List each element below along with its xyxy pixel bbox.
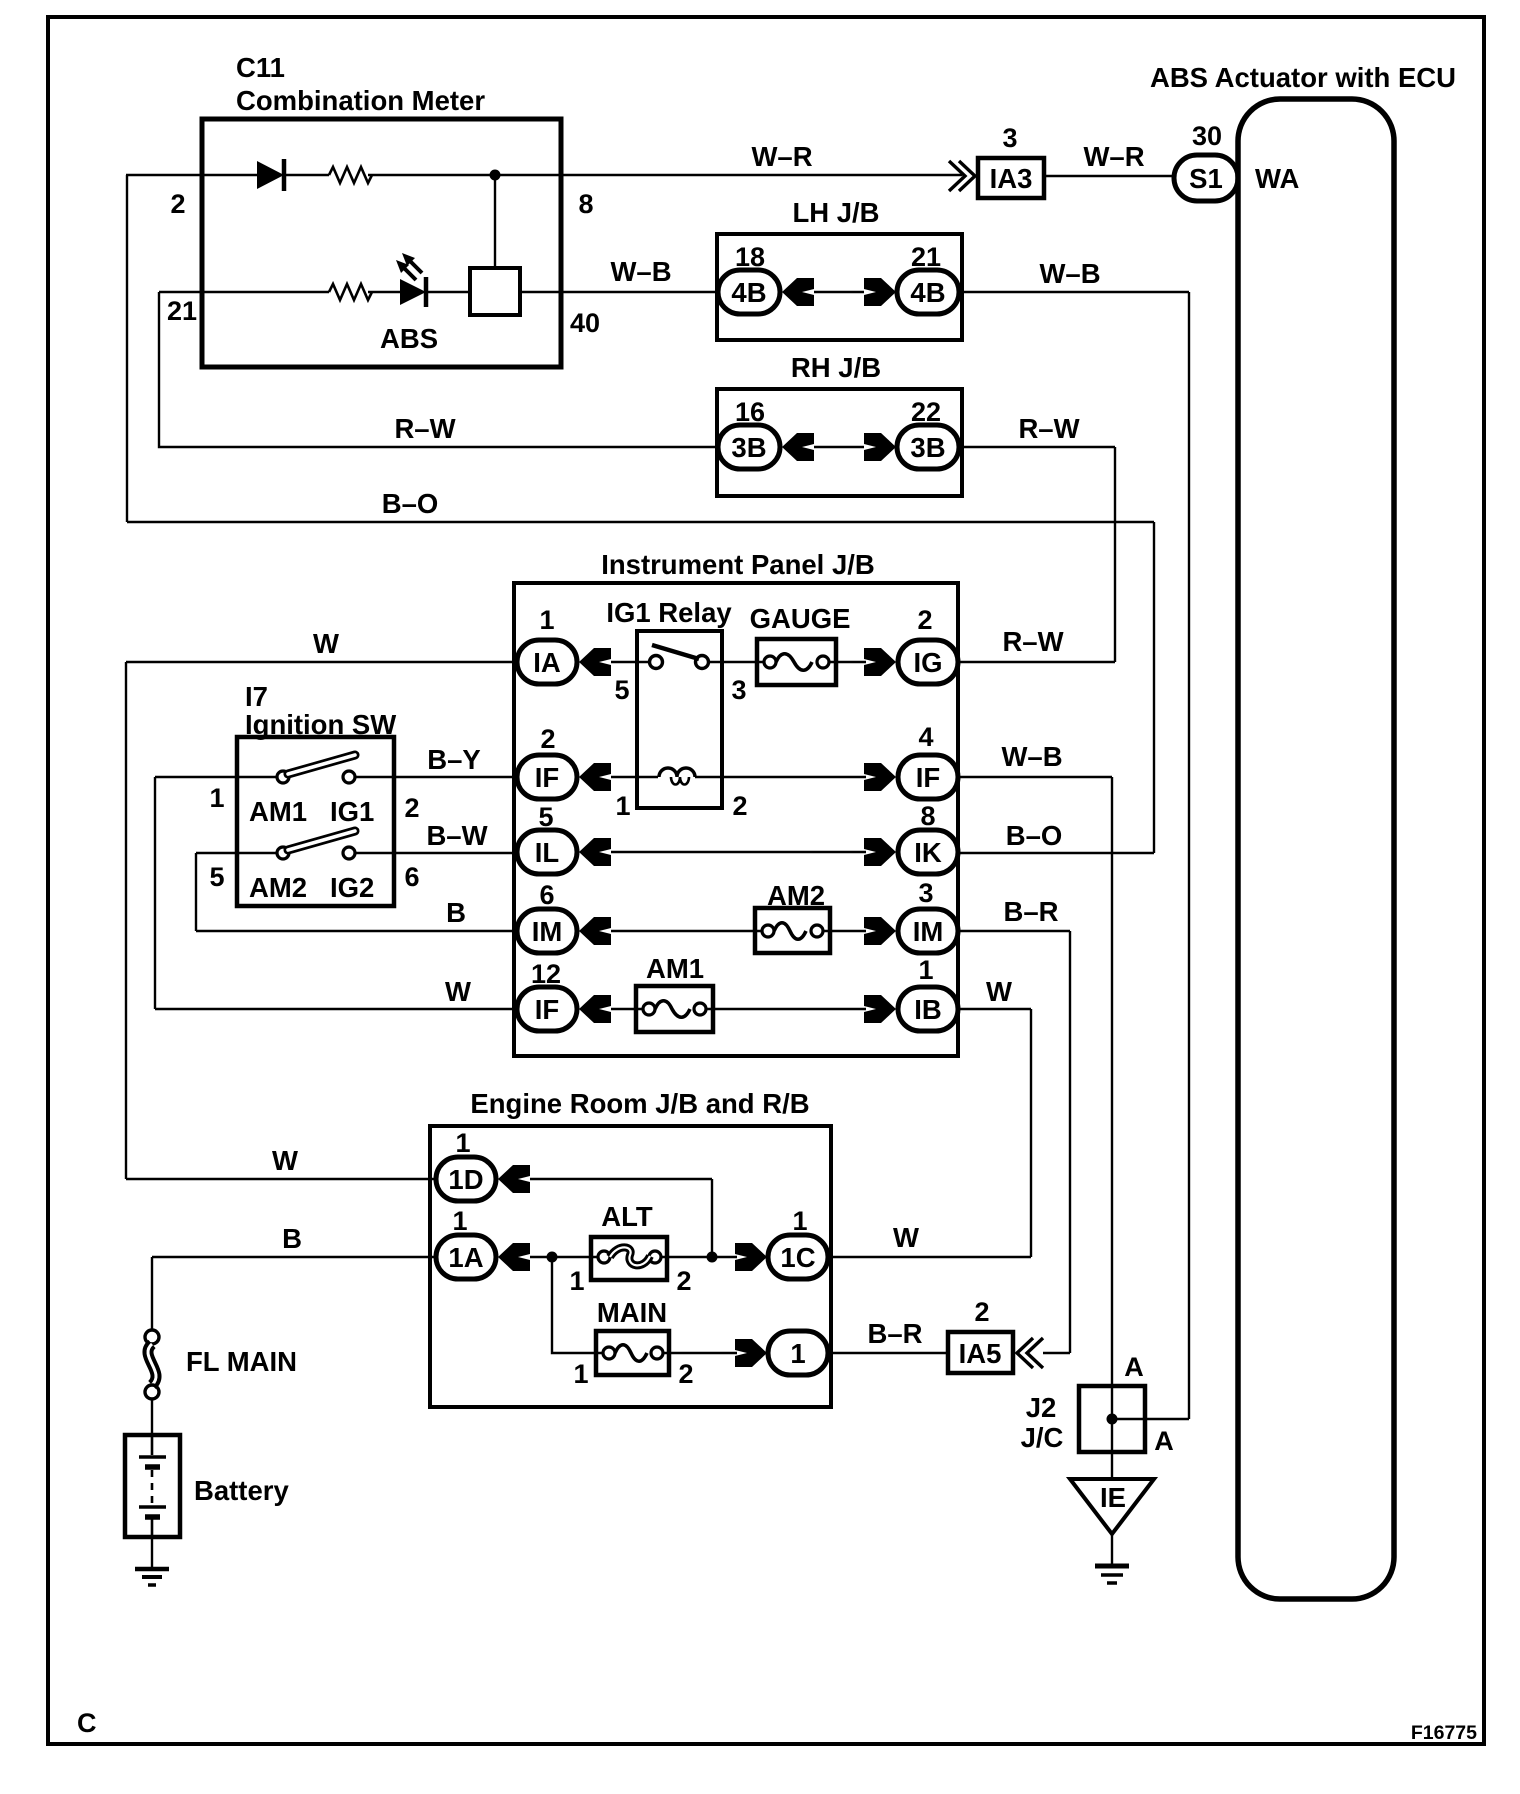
svg-text:W–B: W–B bbox=[1001, 741, 1062, 772]
chevron into IA3 bbox=[949, 161, 975, 191]
connector 1C oval bbox=[768, 1235, 828, 1279]
fuse GAUGE symbol bbox=[764, 656, 776, 668]
arrow left (RH J/B) bbox=[782, 433, 814, 461]
arrow left (IF12) bbox=[579, 995, 611, 1023]
fuse MAIN symbol bbox=[603, 1347, 615, 1359]
wire between arrows bbox=[814, 446, 864, 448]
wire W from 1C bbox=[828, 1256, 1031, 1258]
wire 3B right to vertical bbox=[959, 446, 1115, 448]
svg-text:Combination Meter: Combination Meter bbox=[236, 85, 485, 116]
switch AM1-IG1 lever bbox=[288, 755, 355, 774]
resistor R1 (meter top row) bbox=[329, 167, 372, 183]
wire pin2 to diode bbox=[126, 174, 257, 176]
arrow right (LH J/B) bbox=[864, 278, 896, 306]
wire 1D arrow to vertical bbox=[530, 1178, 712, 1180]
arrow left (IM) bbox=[579, 917, 611, 945]
svg-text:3B: 3B bbox=[910, 432, 945, 463]
svg-text:W: W bbox=[445, 976, 471, 1007]
svg-text:LH J/B: LH J/B bbox=[792, 197, 879, 228]
svg-text:1: 1 bbox=[455, 1128, 470, 1158]
svg-text:16: 16 bbox=[735, 397, 765, 427]
svg-text:30: 30 bbox=[1192, 121, 1222, 151]
svg-text:MAIN: MAIN bbox=[597, 1297, 667, 1328]
svg-text:3: 3 bbox=[731, 675, 746, 705]
wire IF4 to vertical bbox=[958, 776, 1112, 778]
battery internal plates bbox=[151, 1435, 154, 1455]
wire IB to vertical bbox=[958, 1008, 1031, 1010]
svg-text:FL MAIN: FL MAIN bbox=[186, 1346, 297, 1377]
relay switch lever bbox=[652, 645, 699, 659]
wire resistor to LED bbox=[368, 291, 400, 293]
wire B-O into IK bbox=[958, 852, 1154, 854]
connector IM right oval (pin3) bbox=[898, 909, 958, 953]
svg-text:B–O: B–O bbox=[382, 488, 439, 519]
wire W into IF12 bbox=[155, 1008, 517, 1010]
svg-text:4: 4 bbox=[918, 722, 933, 752]
svg-text:C: C bbox=[77, 1708, 97, 1738]
svg-text:IK: IK bbox=[914, 837, 942, 868]
LED ABS warning lamp bbox=[400, 279, 426, 305]
svg-text:1: 1 bbox=[452, 1206, 467, 1236]
wire IA3 to S1 bbox=[1044, 175, 1174, 177]
ground symbol (battery) bbox=[135, 1567, 169, 1572]
svg-text:2: 2 bbox=[917, 605, 932, 635]
svg-text:B–Y: B–Y bbox=[427, 744, 481, 775]
svg-text:IE: IE bbox=[1100, 1482, 1126, 1513]
svg-text:B–O: B–O bbox=[1006, 820, 1063, 851]
wire ALT to 1C arrow bbox=[661, 1256, 737, 1258]
wire 1A arrow to ALT bbox=[530, 1256, 598, 1258]
svg-text:1: 1 bbox=[573, 1359, 588, 1389]
relay IG1 box bbox=[637, 631, 722, 808]
wire GAUGE to IG arrow bbox=[829, 661, 866, 663]
svg-text:Battery: Battery bbox=[194, 1475, 289, 1506]
svg-text:1C: 1C bbox=[780, 1242, 815, 1273]
svg-text:18: 18 bbox=[735, 242, 765, 272]
svg-text:RH J/B: RH J/B bbox=[791, 352, 881, 383]
wire B-O vertical from pin2 wire bbox=[126, 175, 128, 522]
chevron out of IA5 bbox=[1017, 1338, 1043, 1368]
junction node (ALT out) bbox=[707, 1252, 718, 1263]
svg-text:A: A bbox=[1154, 1426, 1174, 1456]
wire W-B vertical down to J/C bbox=[1188, 292, 1190, 1419]
svg-text:I7: I7 bbox=[245, 681, 268, 712]
connector IK oval bbox=[898, 830, 958, 874]
connector IA3 box bbox=[978, 158, 1044, 198]
svg-text:R–W: R–W bbox=[1018, 413, 1079, 444]
wire pin21 to resistor bbox=[159, 291, 329, 293]
svg-text:3: 3 bbox=[918, 878, 933, 908]
connector 3B left oval bbox=[718, 425, 780, 469]
svg-text:IA3: IA3 bbox=[990, 163, 1033, 194]
svg-text:1: 1 bbox=[918, 955, 933, 985]
arrow right (IB) bbox=[864, 995, 896, 1023]
connector IG oval bbox=[898, 640, 958, 684]
arrow right (1 oval) bbox=[735, 1339, 767, 1367]
svg-text:5: 5 bbox=[209, 862, 224, 892]
wire B down from 1A run bbox=[151, 1257, 153, 1330]
svg-text:AM2: AM2 bbox=[249, 872, 307, 903]
svg-text:W: W bbox=[893, 1222, 919, 1253]
svg-text:1: 1 bbox=[790, 1338, 805, 1369]
LED emission arrows bbox=[403, 260, 422, 280]
connector IL oval bbox=[517, 830, 577, 874]
svg-text:IG2: IG2 bbox=[330, 872, 374, 903]
svg-text:21: 21 bbox=[911, 242, 941, 272]
wire W vertical AM1 to IF12 bbox=[154, 777, 156, 1009]
connector 1A oval bbox=[436, 1235, 496, 1279]
connector IA oval bbox=[517, 640, 577, 684]
switch AM2-IG2 lever bbox=[288, 831, 355, 850]
svg-text:1D: 1D bbox=[448, 1164, 483, 1195]
LH J/B box bbox=[717, 234, 962, 340]
svg-text:IF: IF bbox=[535, 994, 559, 1025]
arrow left (1D) bbox=[498, 1165, 530, 1193]
svg-text:2: 2 bbox=[732, 791, 747, 821]
connector 4B left oval bbox=[718, 270, 780, 314]
svg-text:IB: IB bbox=[914, 994, 942, 1025]
arrow right (IK) bbox=[864, 838, 896, 866]
wire IG to R-W vertical bbox=[958, 661, 1115, 663]
connector IB oval bbox=[898, 987, 958, 1031]
svg-text:B: B bbox=[282, 1223, 302, 1254]
svg-text:2: 2 bbox=[678, 1359, 693, 1389]
connector 3B right oval bbox=[897, 425, 959, 469]
svg-text:IA: IA bbox=[533, 647, 561, 678]
svg-text:2: 2 bbox=[404, 793, 419, 823]
junction node (top row) bbox=[490, 170, 501, 181]
relay contact left bbox=[650, 656, 663, 669]
svg-text:W–B: W–B bbox=[1039, 258, 1100, 289]
switch AM1-IG1 contact left bbox=[277, 771, 289, 783]
wire W into 1D bbox=[126, 1178, 436, 1180]
svg-text:3: 3 bbox=[1002, 123, 1017, 153]
fuse AM1 symbol bbox=[643, 1003, 655, 1015]
svg-text:AM1: AM1 bbox=[249, 796, 307, 827]
wire battery to ground bbox=[151, 1537, 153, 1569]
battery box bbox=[125, 1435, 180, 1537]
resistor R2 (meter bottom row) bbox=[329, 284, 372, 300]
svg-text:1A: 1A bbox=[448, 1242, 483, 1273]
svg-text:12: 12 bbox=[531, 959, 561, 989]
arrow left (IF) bbox=[579, 763, 611, 791]
fuse AM1 box bbox=[636, 986, 713, 1032]
wire B into IM bbox=[196, 930, 517, 932]
svg-text:WA: WA bbox=[1255, 163, 1299, 194]
wire B-R from 1 oval bbox=[828, 1352, 948, 1354]
arrow right (IG) bbox=[864, 648, 896, 676]
wire IL to IK bbox=[611, 851, 866, 853]
svg-text:B: B bbox=[446, 897, 466, 928]
ground symbol (IE) bbox=[1095, 1564, 1129, 1569]
svg-text:J2: J2 bbox=[1026, 1392, 1057, 1423]
svg-text:1: 1 bbox=[792, 1206, 807, 1236]
switch AM1-IG1 contact right bbox=[343, 771, 355, 783]
switch AM2-IG2 contact left bbox=[277, 847, 289, 859]
svg-text:3B: 3B bbox=[731, 432, 766, 463]
wire J/C down to IE bbox=[1111, 1419, 1113, 1479]
svg-text:1: 1 bbox=[539, 605, 554, 635]
fusible link FL MAIN bbox=[145, 1330, 159, 1344]
wire relay contact to GAUGE bbox=[709, 661, 765, 663]
svg-text:F16775: F16775 bbox=[1411, 1722, 1477, 1744]
svg-text:5: 5 bbox=[614, 675, 629, 705]
ground connector IE triangle bbox=[1070, 1479, 1154, 1534]
svg-text:GAUGE: GAUGE bbox=[750, 603, 851, 634]
connector IF right oval (pin4) bbox=[898, 755, 958, 799]
wire FL MAIN to battery bbox=[151, 1399, 153, 1435]
svg-text:IF: IF bbox=[916, 762, 940, 793]
fuse ALT symbol bbox=[598, 1251, 610, 1263]
svg-text:2: 2 bbox=[170, 189, 185, 219]
wire IM3 to vertical bbox=[958, 930, 1070, 932]
svg-text:4B: 4B bbox=[731, 277, 766, 308]
connector 1D oval bbox=[436, 1157, 496, 1201]
wire W to IA bbox=[126, 661, 517, 663]
arrow right (RH J/B) bbox=[864, 433, 896, 461]
wire W vertical up to IB bbox=[1030, 1009, 1032, 1257]
wire B into 1A bbox=[152, 1256, 436, 1258]
fuse ALT box bbox=[591, 1237, 667, 1280]
svg-text:IG: IG bbox=[913, 647, 942, 678]
svg-text:B–W: B–W bbox=[426, 820, 487, 851]
svg-text:A: A bbox=[1124, 1352, 1144, 1382]
wire junction down to driver box bbox=[494, 175, 496, 268]
fuse MAIN box bbox=[596, 1331, 669, 1375]
wire vertical to ALT junction bbox=[711, 1179, 713, 1257]
wire IF to relay coil bbox=[611, 776, 658, 778]
RH J/B box bbox=[717, 389, 962, 496]
wire 4B right to vertical bbox=[959, 291, 1189, 293]
svg-text:C11: C11 bbox=[236, 52, 285, 83]
svg-text:W–B: W–B bbox=[610, 256, 671, 287]
svg-text:IM: IM bbox=[532, 916, 563, 947]
connector IF oval (pin2) bbox=[517, 755, 577, 799]
svg-text:IA5: IA5 bbox=[959, 1338, 1002, 1369]
arrow right (1C) bbox=[735, 1243, 767, 1271]
ignition switch box I7 bbox=[237, 737, 394, 906]
connector S1 oval bbox=[1174, 155, 1238, 201]
wire between arrows bbox=[814, 291, 864, 293]
relay contact right bbox=[696, 656, 709, 669]
wire B-W IG2 to IL bbox=[355, 852, 517, 854]
wire AM2 to IM3 arrow bbox=[823, 930, 866, 932]
switch AM2-IG2 contact right bbox=[343, 847, 355, 859]
wire B-O horizontal bbox=[127, 521, 1154, 523]
wire diode to resistor bbox=[284, 174, 329, 176]
wire IF12 to AM1 bbox=[611, 1008, 644, 1010]
svg-text:B–R: B–R bbox=[1003, 896, 1058, 927]
svg-text:IL: IL bbox=[535, 837, 559, 868]
arrow right (IF4) bbox=[864, 763, 896, 791]
svg-text:Engine Room J/B and R/B: Engine Room J/B and R/B bbox=[470, 1088, 809, 1119]
wire B vertical AM2 to IM bbox=[195, 853, 197, 931]
arrow left (LH J/B) bbox=[782, 278, 814, 306]
wire AM2 pin5 left bbox=[196, 852, 277, 854]
svg-text:1: 1 bbox=[615, 791, 630, 821]
svg-text:IF: IF bbox=[535, 762, 559, 793]
arrow right (IM3) bbox=[864, 917, 896, 945]
svg-text:ALT: ALT bbox=[601, 1201, 653, 1232]
wire driver box to pin 40 bbox=[520, 291, 718, 293]
relay coil bbox=[659, 768, 695, 777]
svg-text:IM: IM bbox=[913, 916, 944, 947]
wire R-W from meter vertical bbox=[159, 292, 718, 447]
svg-text:ABS: ABS bbox=[380, 323, 438, 354]
wire AM1 pin1 left bbox=[155, 776, 277, 778]
ABS actuator ECU rounded box WA bbox=[1238, 99, 1394, 1599]
connector IM oval bbox=[517, 909, 577, 953]
svg-text:Instrument Panel J/B: Instrument Panel J/B bbox=[601, 549, 875, 580]
svg-text:AM1: AM1 bbox=[646, 953, 704, 984]
svg-text:J/C: J/C bbox=[1021, 1422, 1064, 1453]
wire B-R vertical up to IM3 bbox=[1069, 931, 1071, 1353]
svg-text:R–W: R–W bbox=[394, 413, 455, 444]
svg-text:1: 1 bbox=[569, 1266, 584, 1296]
wire MAIN to 1 arrow bbox=[663, 1352, 737, 1354]
connector IF oval (pin12) bbox=[517, 987, 577, 1031]
svg-text:2: 2 bbox=[974, 1297, 989, 1327]
engine room J/B box bbox=[430, 1126, 831, 1407]
svg-text:IG1: IG1 bbox=[330, 796, 374, 827]
wire IE to ground bbox=[1111, 1534, 1113, 1566]
svg-text:22: 22 bbox=[911, 397, 941, 427]
fuse AM2 box bbox=[755, 908, 830, 953]
wire J/C to W-B vertical bbox=[1112, 1418, 1189, 1420]
fuse GAUGE box bbox=[757, 639, 836, 685]
svg-text:IG1 Relay: IG1 Relay bbox=[606, 597, 732, 628]
arrow left (1A) bbox=[498, 1243, 530, 1271]
arrow left (IL) bbox=[579, 838, 611, 866]
wire B-Y IG1 to IF bbox=[355, 776, 517, 778]
svg-text:W–R: W–R bbox=[751, 141, 812, 172]
wire relay coil to IF4 arrow bbox=[695, 776, 866, 778]
driver square box bbox=[470, 268, 520, 315]
svg-text:6: 6 bbox=[404, 862, 419, 892]
wire W-B vertical down to J/C bbox=[1111, 777, 1113, 1419]
svg-text:R–W: R–W bbox=[1002, 626, 1063, 657]
wire LED to driver box bbox=[426, 291, 470, 293]
svg-text:W: W bbox=[986, 976, 1012, 1007]
connector 4B right oval bbox=[897, 270, 959, 314]
svg-text:2: 2 bbox=[540, 724, 555, 754]
svg-text:4B: 4B bbox=[910, 277, 945, 308]
svg-text:ABS Actuator with ECU: ABS Actuator with ECU bbox=[1150, 62, 1456, 93]
wire resistor to pin 8 bbox=[368, 174, 962, 176]
svg-text:5: 5 bbox=[538, 802, 553, 832]
wire IM to AM2 bbox=[611, 930, 763, 932]
fuse AM2 symbol bbox=[762, 925, 774, 937]
wire IA5 to vertical bbox=[1043, 1352, 1070, 1354]
junction block J2 J/C box bbox=[1079, 1386, 1145, 1452]
instrument panel J/B box bbox=[514, 583, 958, 1056]
connector IA5 box bbox=[948, 1332, 1013, 1373]
connector 1 oval bbox=[768, 1331, 828, 1375]
junction node (J/C) bbox=[1107, 1414, 1118, 1425]
svg-text:B–R: B–R bbox=[867, 1318, 922, 1349]
wire B-O vertical right bbox=[1153, 522, 1155, 853]
svg-text:8: 8 bbox=[578, 189, 593, 219]
svg-text:2: 2 bbox=[676, 1266, 691, 1296]
wire AM1 to IB arrow bbox=[706, 1008, 866, 1010]
svg-text:6: 6 bbox=[539, 880, 554, 910]
svg-text:W: W bbox=[313, 628, 339, 659]
arrow left (IA) bbox=[579, 648, 611, 676]
svg-text:W: W bbox=[272, 1145, 298, 1176]
svg-text:21: 21 bbox=[167, 296, 197, 326]
svg-text:S1: S1 bbox=[1189, 163, 1223, 194]
diode D (combination meter) bbox=[257, 161, 284, 189]
wire W vertical down to 1D bbox=[125, 662, 127, 1179]
svg-text:1: 1 bbox=[209, 783, 224, 813]
wire junction down to MAIN bbox=[552, 1257, 603, 1353]
svg-text:W–R: W–R bbox=[1083, 141, 1144, 172]
svg-text:8: 8 bbox=[920, 801, 935, 831]
combination meter box C11 bbox=[202, 119, 561, 367]
wire R-W vertical down to IG bbox=[1114, 447, 1116, 662]
junction node (1A/ALT/MAIN) bbox=[547, 1252, 558, 1263]
wire IA to relay contact bbox=[611, 661, 650, 663]
svg-text:40: 40 bbox=[570, 308, 600, 338]
